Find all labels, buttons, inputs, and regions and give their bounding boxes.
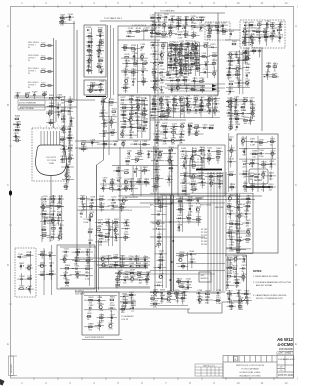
capacitor C304 (56, 104, 62, 108)
svg-text:R590: R590 (124, 234, 130, 236)
resistor R721 (238, 303, 244, 311)
wire (132, 166, 134, 196)
svg-text:D250: D250 (216, 27, 222, 29)
coil L237 (168, 25, 174, 33)
svg-text:C493: C493 (235, 124, 241, 126)
resistor R182 (179, 46, 185, 54)
resistor R538 (88, 229, 94, 233)
resistor R688 (88, 324, 94, 332)
resistor R133 (131, 45, 137, 53)
svg-text:COIL 2X: COIL 2X (121, 319, 129, 321)
CRT socket sub box (84, 80, 106, 95)
capacitor C346 (142, 125, 148, 133)
svg-text:D558: D558 (74, 258, 80, 260)
capacitor C710 (216, 290, 222, 298)
svg-text:D292: D292 (228, 88, 234, 90)
resistor R532 (51, 225, 57, 233)
wire (120, 97, 148, 138)
svg-text:Q599: Q599 (101, 262, 107, 264)
resistor R604 (136, 263, 142, 267)
transistor Q606 (118, 270, 124, 278)
resistor R343 (122, 124, 128, 132)
svg-text:VERT: VERT (254, 177, 260, 179)
resistor R469 (155, 175, 161, 183)
svg-text:R308: R308 (15, 116, 21, 118)
svg-text:R329: R329 (136, 97, 142, 99)
coil L188 (177, 50, 183, 58)
svg-text:C372: C372 (103, 177, 109, 179)
coil L335 (121, 112, 127, 120)
coil L601 (113, 262, 119, 266)
resistor R266 (263, 29, 269, 37)
capacitor C596 (129, 256, 135, 260)
resistor R702 (151, 295, 157, 303)
CRT pins (41, 131, 60, 145)
capacitor C528 (43, 218, 49, 226)
resistor R660 (228, 230, 234, 238)
transistor Q578 (89, 212, 95, 220)
coil L153 (150, 15, 156, 23)
svg-text:R126: R126 (97, 63, 103, 65)
svg-text:2.2M: 2.2M (153, 90, 158, 92)
resistor R350 (109, 99, 115, 107)
wire (14, 95, 45, 97)
capacitor C115 (88, 52, 94, 56)
transistor Q235 (191, 16, 197, 24)
diode D460 (218, 181, 224, 189)
coil L209 (195, 65, 201, 73)
svg-text:Q676: Q676 (241, 274, 247, 276)
coil L251 (221, 28, 227, 36)
wire (43, 248, 45, 295)
resistor R128 (90, 83, 96, 87)
transistor Q228 (176, 85, 182, 90)
svg-text:2.2M: 2.2M (238, 309, 243, 311)
coil L370 (125, 158, 131, 166)
diode D488 (228, 116, 234, 124)
svg-text:R483: R483 (250, 105, 256, 107)
wire (120, 293, 136, 312)
svg-text:C673: C673 (241, 265, 247, 267)
junction dots (169, 202, 174, 281)
svg-text:9-87: 9-87 (201, 275, 205, 277)
coil L580 (105, 219, 111, 227)
svg-text:Q466: Q466 (168, 158, 174, 160)
svg-text:P2 21V: P2 21V (201, 232, 208, 234)
capacitor C185 (194, 45, 200, 53)
capacitor C589 (114, 234, 120, 242)
svg-text:C330: C330 (142, 97, 148, 99)
svg-text:4.7K: 4.7K (108, 329, 113, 331)
svg-text:Q347: Q347 (120, 131, 126, 133)
resistor R112 (88, 39, 94, 43)
wire (82, 339, 122, 341)
resistor R450 (192, 162, 198, 170)
transistor Q669 (234, 256, 240, 264)
resistor R102 (232, 41, 238, 45)
wire (150, 14, 168, 38)
svg-text:Q536: Q536 (58, 234, 64, 236)
transistor Q193 (174, 57, 180, 65)
svg-text:D467: D467 (155, 166, 161, 168)
capacitor C591 (99, 239, 105, 247)
diode D404 (193, 102, 199, 110)
resistor R609 (137, 271, 143, 279)
transistor Q207 (183, 65, 189, 73)
svg-text:2.2M: 2.2M (160, 93, 165, 95)
capacitor C696 (131, 305, 137, 313)
resistor R562 (86, 266, 92, 274)
svg-text:Q459: Q459 (209, 180, 215, 182)
svg-text:R702: R702 (151, 295, 157, 297)
resistor R602 (120, 262, 126, 266)
coil L419 (159, 113, 165, 121)
svg-text:HOR OUTPUT: HOR OUTPUT (113, 207, 127, 209)
wire (118, 199, 255, 201)
wire (151, 195, 167, 288)
resistor R261 (270, 22, 276, 30)
svg-text:Q711: Q711 (198, 297, 204, 299)
svg-text:R597: R597 (135, 256, 141, 258)
resistor R203 video BLK drive (28, 82, 54, 89)
svg-text:C582: C582 (124, 219, 130, 221)
resistor R126 (97, 63, 103, 67)
transistor Q557 (63, 256, 69, 264)
wire (226, 50, 250, 94)
svg-text:C708: C708 (197, 290, 203, 292)
capacitor C225 (193, 78, 199, 82)
svg-text:Q270: Q270 (250, 35, 256, 37)
svg-text:D516: D516 (229, 159, 235, 161)
svg-text:P6 25V: P6 25V (201, 244, 208, 246)
svg-text:C456: C456 (182, 180, 188, 182)
resistor R303 (49, 103, 55, 107)
svg-text:R553: R553 (49, 271, 55, 273)
resistor R338 (142, 111, 148, 119)
resistor R324 (68, 145, 74, 153)
svg-text:Q340: Q340 (129, 117, 135, 119)
wire (113, 28, 115, 95)
svg-text:2.2M: 2.2M (182, 168, 187, 170)
svg-text:D383: D383 (130, 186, 136, 188)
wire (188, 302, 240, 313)
diode D243 (178, 32, 184, 40)
svg-text:C136: C136 (132, 53, 138, 55)
resistor R581 (114, 219, 120, 227)
IC hybrid module IC501 (249, 169, 268, 184)
svg-text:R679: R679 (89, 297, 95, 299)
capacitor C206 (179, 66, 185, 74)
svg-text:R203: R203 (41, 83, 46, 85)
svg-text:D271: D271 (258, 35, 264, 37)
coil L216 (201, 53, 207, 57)
coil L139 (133, 60, 139, 68)
coil L321 (60, 136, 66, 144)
svg-text:D460: D460 (218, 181, 224, 183)
coil L552 (40, 272, 46, 276)
wire (239, 136, 276, 192)
svg-text:Q487: Q487 (250, 110, 256, 112)
warning label box 2 (18, 106, 45, 111)
svg-text:B: B (7, 103, 9, 107)
svg-text:33K: 33K (162, 37, 166, 39)
transistor Q165 (160, 52, 166, 60)
svg-text:C220: C220 (203, 69, 209, 71)
capacitor C157 (157, 22, 163, 30)
resistor R518 (230, 184, 236, 188)
svg-text:R625: R625 (159, 257, 165, 259)
coil L622 (157, 234, 163, 238)
svg-text:Q501: Q501 (270, 151, 276, 153)
svg-text:R457: R457 (191, 181, 197, 183)
resistor R392 (179, 96, 185, 104)
resistor R401 (173, 102, 179, 110)
resistor R294 (273, 63, 279, 67)
svg-text:10K: 10K (112, 114, 116, 116)
capacitor C477 (234, 97, 240, 105)
svg-text:2.2M: 2.2M (196, 222, 201, 224)
capacitor C437 (187, 129, 193, 133)
resistor R205 (173, 65, 179, 73)
wire (170, 90, 220, 92)
capacitor C561 (75, 266, 81, 274)
capacitor C428 (179, 131, 185, 139)
svg-text:R366: R366 (138, 150, 144, 152)
svg-text:Q683: Q683 (99, 304, 105, 306)
diode D208 (189, 67, 195, 75)
resistor R443 (216, 148, 222, 156)
svg-text:33K: 33K (222, 34, 226, 36)
svg-text:C654: C654 (228, 211, 234, 213)
resistor R574 (100, 204, 106, 212)
capacitor C514 (229, 136, 235, 140)
svg-text:2: 2 (43, 128, 44, 130)
capacitor C199 (173, 61, 179, 69)
svg-text:C129: C129 (99, 81, 105, 83)
svg-text:R352: R352 (112, 109, 118, 111)
capacitor C654 (228, 211, 234, 219)
svg-text:C479: C479 (249, 98, 255, 100)
svg-text:Q564: Q564 (75, 272, 81, 274)
capacitor C253 (244, 48, 250, 52)
capacitor C507 (250, 173, 256, 181)
svg-text:Q634: Q634 (196, 206, 202, 208)
resistor R287 (235, 72, 241, 80)
svg-text:C225: C225 (193, 78, 199, 80)
resistor R714 (227, 291, 233, 299)
resistor R499 (252, 151, 258, 159)
svg-text:R287: R287 (235, 72, 241, 74)
svg-text:Y4 BLK: Y4 BLK (197, 168, 204, 170)
svg-text:R576: R576 (120, 204, 126, 206)
wire (53, 38, 55, 128)
svg-text:D327: D327 (121, 97, 127, 99)
resistor R364 (81, 146, 87, 150)
transistor Q452 (191, 173, 197, 181)
wire (225, 39, 240, 41)
svg-text:R548: R548 (40, 252, 46, 254)
capacitor C631 (196, 197, 202, 205)
svg-text:R147: R147 (123, 85, 129, 87)
svg-text:A: A (295, 24, 297, 28)
resistor R121 (99, 39, 105, 43)
capacitor C500 (259, 150, 265, 158)
svg-text:4.7K: 4.7K (169, 171, 174, 173)
wire (150, 192, 253, 194)
capacitor C666 (229, 245, 235, 253)
svg-text:C458: C458 (200, 179, 206, 181)
capacitor C155 (164, 14, 170, 22)
transistor Q466 (168, 158, 174, 166)
capacitor C575 (111, 203, 117, 211)
capacitor C549 (48, 252, 54, 256)
resistor R436 (209, 125, 215, 129)
grid reference letters (7, 24, 298, 346)
svg-text:C367: C367 (147, 151, 153, 153)
svg-text:2X 9-121: 2X 9-121 (44, 223, 52, 225)
capacitor C577 (80, 211, 86, 219)
capacitor C675 (233, 274, 239, 282)
diode D271 (258, 35, 264, 43)
svg-text:4.7K: 4.7K (68, 151, 73, 153)
wire (213, 172, 215, 291)
wire (252, 193, 254, 253)
capacitor C297 (16, 92, 22, 96)
resistor R462 (192, 186, 198, 194)
capacitor C190 (189, 50, 195, 58)
wire (151, 146, 174, 192)
svg-text:R639: R639 (180, 252, 186, 254)
resistor R163 (161, 42, 167, 50)
capacitor C381 (117, 186, 123, 190)
yoke wire labels (197, 159, 205, 170)
svg-text:4.7K: 4.7K (61, 122, 66, 124)
svg-text:2.2M: 2.2M (105, 240, 110, 242)
capacitor C302 (57, 95, 63, 99)
svg-text:C141: C141 (124, 69, 130, 71)
svg-text:Q319: Q319 (61, 126, 67, 128)
wire (20, 106, 77, 108)
resistor R534 (42, 232, 48, 240)
svg-text:D348: D348 (129, 132, 135, 134)
wire (61, 165, 74, 190)
capacitor C535 (50, 234, 56, 242)
title block (223, 356, 294, 379)
svg-text:R695: R695 (121, 306, 127, 308)
svg-text:Q165: Q165 (160, 52, 166, 54)
svg-text:4.7K: 4.7K (235, 286, 240, 288)
part number text (276, 337, 293, 355)
capacitor C204 (169, 64, 175, 72)
svg-text:R259: R259 (257, 22, 263, 24)
resistor R308 (15, 116, 21, 120)
wire (150, 291, 188, 306)
svg-text:C150: C150 (145, 27, 151, 29)
boxed net label REG B+ (155, 199, 172, 204)
svg-text:REVISED: REVISED (11, 364, 13, 373)
resistor R674 (227, 273, 233, 281)
wire (155, 12, 225, 14)
svg-text:R707: R707 (153, 301, 159, 303)
resistor R483 (250, 105, 256, 113)
svg-text:C526: C526 (51, 211, 57, 213)
resistor R651 (227, 203, 233, 211)
svg-text:R541: R541 (27, 252, 33, 254)
svg-text:Q515: Q515 (229, 148, 235, 150)
svg-text:C248: C248 (221, 23, 227, 25)
wire (126, 28, 156, 40)
transistor Q536 (58, 234, 64, 242)
svg-text:C563: C563 (63, 272, 69, 274)
svg-text:R569: R569 (99, 196, 105, 198)
svg-text:C591: C591 (99, 239, 105, 241)
coil L664 (237, 237, 243, 245)
svg-text:R714: R714 (227, 291, 233, 293)
capacitor C232 (170, 16, 176, 24)
CRT picture tube V1 (35, 145, 66, 176)
svg-text:KEY PULSE: KEY PULSE (200, 205, 212, 207)
capacitor C619 (157, 211, 163, 215)
svg-text:R485: R485 (234, 111, 240, 113)
svg-text:Q410: Q410 (167, 108, 173, 110)
capacitor C498 (242, 149, 248, 157)
capacitor C365 (127, 150, 133, 158)
svg-text:2.2M: 2.2M (229, 251, 234, 253)
svg-text:D439: D439 (181, 148, 187, 150)
resistor R686 (99, 315, 105, 323)
focus divider text block (44, 214, 54, 225)
transistor Q648 (228, 195, 234, 203)
diode D642 (190, 259, 196, 263)
capacitor C708 (197, 290, 203, 298)
diode D173 (160, 87, 166, 95)
diode D509 (269, 173, 275, 181)
resistor R296 (272, 73, 278, 77)
wire (216, 172, 218, 291)
resistor R420 (164, 113, 170, 121)
diode D278 (235, 51, 241, 59)
resistor R273 (270, 33, 276, 41)
wire (38, 250, 56, 280)
svg-text:D334: D334 (143, 105, 149, 107)
capacitor C148 (128, 28, 134, 32)
resistor R329 (136, 97, 142, 105)
svg-text:C605: C605 (143, 263, 149, 265)
svg-text:AC INPUT: AC INPUT (75, 290, 85, 293)
capacitor C407 (214, 101, 220, 109)
capacitor C416 (208, 107, 214, 115)
resistor R406 (207, 101, 213, 109)
capacitor C463 (154, 149, 160, 157)
coil L468 (168, 165, 174, 173)
coil L475 (63, 183, 69, 191)
coil L167 (159, 60, 165, 68)
coil L706 (180, 295, 186, 303)
transistor Q137 (140, 54, 146, 62)
resistor R196 (190, 55, 196, 63)
transistor Q354 (109, 119, 115, 127)
capacitor C694 (130, 300, 136, 308)
svg-text:C113: C113 (87, 43, 93, 45)
svg-text:R289: R289 (229, 81, 235, 83)
resistor R119 (98, 27, 104, 31)
capacitor C493 (235, 124, 241, 132)
capacitor C626 (158, 264, 164, 268)
resistor R709 (206, 291, 212, 299)
transistor Q158 (162, 22, 168, 30)
svg-text:D243: D243 (178, 32, 184, 34)
svg-text:D341: D341 (136, 117, 142, 119)
